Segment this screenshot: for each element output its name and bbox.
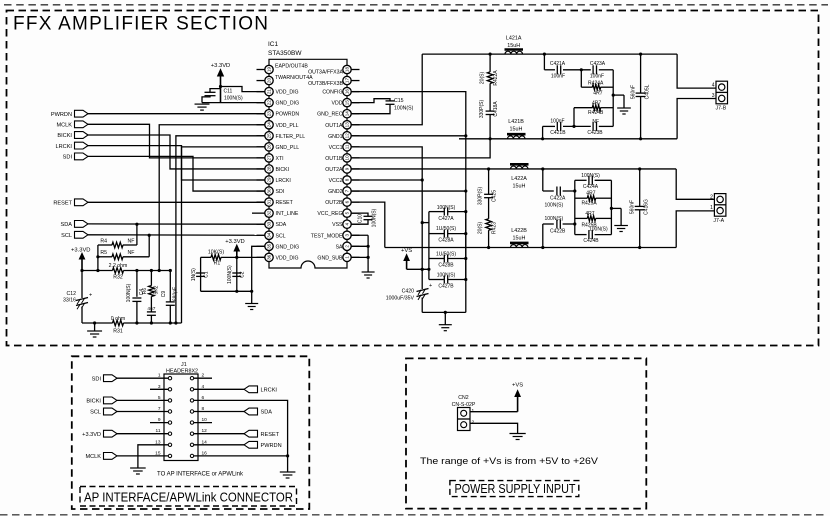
- svg-text:2: 2: [710, 195, 713, 201]
- svg-text:CONFIG: CONFIG: [322, 90, 342, 96]
- power +VS arrow: [401, 248, 412, 269]
- svg-text:+3.3VD: +3.3VD: [71, 248, 91, 254]
- svg-text:NF: NF: [128, 238, 135, 244]
- op-amp U1 reference IC1 STA350BW: [268, 41, 302, 57]
- resistor R32 2.2 ohm: [80, 263, 171, 280]
- wire +VS node: [407, 268, 431, 271]
- svg-text:RESET: RESET: [276, 200, 294, 206]
- wire SDI staircase: [88, 156, 265, 191]
- svg-text:31: 31: [267, 199, 272, 205]
- svg-text:22: 22: [267, 100, 272, 106]
- svg-text:C418A: C418A: [493, 101, 499, 117]
- capacitor C10 100N(S): [351, 208, 377, 227]
- wire to J7-B pin4: [677, 54, 716, 88]
- svg-text:J7-A: J7-A: [713, 218, 724, 224]
- svg-text:1: 1: [710, 205, 713, 211]
- svg-text:VDD_DIG: VDD_DIG: [276, 90, 299, 96]
- svg-text:IC1: IC1: [268, 41, 279, 48]
- capacitor C9 680pF: [161, 271, 179, 324]
- svg-text:C422B: C422B: [550, 229, 566, 235]
- svg-text:+: +: [429, 283, 432, 289]
- node RESET input tag: [53, 199, 264, 207]
- svg-text:+VS: +VS: [512, 383, 523, 389]
- node LRCKI input tag: [56, 142, 88, 150]
- svg-text:7: 7: [345, 189, 350, 192]
- svg-text:FFX AMPLIFIER SECTION: FFX AMPLIFIER SECTION: [13, 13, 268, 34]
- svg-text:6: 6: [202, 395, 205, 401]
- svg-text:C9: C9: [161, 291, 167, 298]
- svg-text:R31: R31: [113, 329, 123, 335]
- svg-text:RESET: RESET: [53, 201, 72, 207]
- svg-text:SDI: SDI: [63, 155, 73, 161]
- wire OUT1B jog: [351, 139, 490, 158]
- svg-text:C12: C12: [66, 291, 76, 297]
- power +3.3VD mid: [225, 239, 245, 259]
- svg-text:C428A: C428A: [438, 237, 454, 243]
- power +3.3VD top: [211, 63, 231, 103]
- capacitor C405L 560nF: [631, 54, 651, 139]
- svg-text:OUT2B: OUT2B: [325, 200, 343, 206]
- wire VCC bus to bypass ladder: [421, 221, 429, 224]
- svg-text:1: 1: [345, 256, 350, 259]
- svg-text:SDA: SDA: [60, 222, 72, 228]
- wire GND_DIG pin35 left: [252, 246, 265, 291]
- svg-text:19: 19: [267, 67, 272, 73]
- svg-text:BICKI: BICKI: [276, 167, 290, 173]
- svg-text:10: 10: [202, 417, 208, 423]
- svg-text:12: 12: [202, 428, 208, 434]
- svg-text:OUT2A: OUT2A: [325, 167, 343, 173]
- IC1 body: [269, 59, 347, 268]
- svg-text:9: 9: [158, 417, 161, 423]
- svg-text:L421A: L421A: [506, 36, 522, 42]
- svg-text:R423: R423: [492, 222, 498, 234]
- svg-text:0 ohm: 0 ohm: [111, 316, 125, 322]
- svg-text:R6: R6: [142, 288, 148, 295]
- svg-text:560nF: 560nF: [630, 200, 636, 214]
- svg-text:2: 2: [202, 373, 205, 379]
- wire TEST_MODE SA GND_SUB to ground: [351, 235, 370, 272]
- wire ground rail below C420: [422, 311, 466, 314]
- node BICKI input tag: [57, 132, 88, 140]
- svg-text:100nF: 100nF: [551, 74, 565, 80]
- svg-text:2: 2: [345, 245, 350, 248]
- svg-text:GND_REC: GND_REC: [317, 112, 343, 118]
- svg-text:C423B: C423B: [587, 130, 603, 136]
- svg-text:330P(S): 330P(S): [478, 186, 484, 205]
- svg-text:VCC_REG: VCC_REG: [317, 211, 342, 217]
- wire to J7-B pin3: [677, 99, 716, 139]
- svg-text:330P(S): 330P(S): [479, 99, 485, 118]
- svg-text:34: 34: [267, 232, 272, 238]
- svg-text:8: 8: [202, 406, 205, 412]
- svg-text:1000uF/35V: 1000uF/35V: [386, 296, 415, 302]
- svg-text:OUT3B/FFX3B: OUT3B/FFX3B: [308, 81, 343, 87]
- svg-text:13: 13: [345, 122, 350, 128]
- svg-text:560nF: 560nF: [631, 85, 637, 99]
- power label box: [450, 481, 579, 497]
- node +3.3VD tag AP box: [82, 430, 150, 438]
- stub INT_LINE pin 32: [252, 212, 257, 214]
- svg-text:SDA: SDA: [261, 410, 273, 416]
- node MCLK tag AP box: [85, 453, 150, 461]
- node SDA input tag: [60, 221, 264, 229]
- svg-text:32: 32: [267, 210, 272, 216]
- text TO AP INTERFACE or APWLink: [157, 471, 244, 478]
- wire CN2 pin2 to ground: [470, 423, 518, 433]
- IC1 right pin circles and numbers: [343, 65, 360, 261]
- power supply dashed border: [406, 358, 646, 508]
- svg-text:14: 14: [345, 111, 350, 117]
- wire GND_PLL down: [182, 147, 265, 323]
- ground AP right: [280, 472, 296, 478]
- inductor L422B 15uH: [510, 228, 529, 248]
- wire to J7-A pin1: [676, 211, 714, 248]
- svg-text:J1: J1: [181, 362, 187, 368]
- wire ground row pins35/36 cluster: [201, 290, 254, 293]
- svg-text:TO AP INTERFACE or APWLink: TO AP INTERFACE or APWLink: [157, 471, 244, 478]
- svg-text:4u7: 4u7: [147, 306, 155, 312]
- svg-text:L422B: L422B: [511, 228, 527, 234]
- svg-text:8: 8: [345, 178, 350, 181]
- svg-text:LRCKI: LRCKI: [261, 388, 278, 394]
- svg-text:14: 14: [202, 439, 208, 445]
- svg-text:VSS: VSS: [332, 222, 343, 228]
- svg-text:+3.3VD: +3.3VD: [82, 432, 101, 438]
- svg-text:16: 16: [202, 450, 208, 456]
- AP interface dashed border: [72, 356, 309, 509]
- svg-text:C422A: C422A: [550, 196, 566, 202]
- resistor R5 NF: [98, 250, 149, 260]
- svg-text:INT_LINE: INT_LINE: [276, 211, 299, 217]
- ground AP left: [130, 468, 146, 474]
- svg-text:100nF: 100nF: [550, 118, 564, 124]
- svg-text:C428B: C428B: [438, 262, 454, 268]
- wire OUT2A rail: [487, 167, 676, 170]
- svg-text:RESET: RESET: [261, 432, 280, 438]
- svg-text:4: 4: [712, 82, 715, 88]
- capacitor C15 100N(S): [351, 98, 413, 114]
- svg-text:23: 23: [267, 111, 272, 117]
- node LRCKI tag AP box: [212, 386, 277, 394]
- svg-text:10: 10: [345, 155, 350, 161]
- power +VS in supply box: [512, 383, 523, 412]
- resistor R423 20(S): [478, 219, 498, 248]
- svg-text:100N(S): 100N(S): [224, 95, 243, 101]
- resistor R6 and capacitor 4u7: [142, 271, 160, 324]
- text Vs range: [420, 456, 598, 466]
- connector CN2 CN-S-02P: [452, 395, 476, 431]
- svg-text:3: 3: [158, 384, 161, 390]
- svg-text:12: 12: [345, 133, 350, 139]
- svg-text:15uH: 15uH: [507, 43, 520, 49]
- svg-text:C424A: C424A: [583, 184, 599, 190]
- resistor R422A 20(S): [480, 54, 500, 86]
- svg-text:CN-S-02P: CN-S-02P: [452, 402, 476, 408]
- svg-text:GND_DIG: GND_DIG: [276, 244, 300, 250]
- svg-text:CN2: CN2: [458, 395, 468, 401]
- wire R4 to SDA: [135, 223, 138, 245]
- svg-text:C416G: C416G: [644, 199, 650, 215]
- svg-text:13: 13: [155, 439, 161, 445]
- IC1 left pin circles and numbers: [257, 65, 274, 261]
- svg-text:C2: C2: [240, 271, 246, 278]
- node SCL input tag: [61, 231, 265, 239]
- svg-text:GND1: GND1: [328, 134, 343, 140]
- svg-text:1U/50(S): 1U/50(S): [436, 226, 456, 232]
- inductor L421A 15uH: [505, 36, 524, 55]
- svg-text:VDD: VDD: [332, 101, 343, 107]
- svg-text:20(S): 20(S): [480, 72, 486, 85]
- svg-text:C15: C15: [394, 98, 404, 104]
- svg-text:R4: R4: [100, 238, 107, 244]
- title FFX AMPLIFIER SECTION: [13, 13, 268, 34]
- svg-text:C424B: C424B: [583, 238, 599, 244]
- svg-text:20(S): 20(S): [478, 222, 484, 235]
- amplifier section dashed border: [7, 11, 819, 346]
- svg-text:680pF: 680pF: [173, 287, 179, 301]
- wire OUT2A rail left: [351, 168, 488, 170]
- svg-text:15uH: 15uH: [513, 184, 526, 190]
- svg-text:SDI: SDI: [92, 376, 102, 382]
- wire to J7-A pin2: [676, 169, 714, 199]
- wire OUT2B rail: [385, 246, 676, 249]
- wire MCLK to XTI staircase: [88, 124, 265, 158]
- resistor R4 NF: [98, 238, 137, 248]
- svg-text:33: 33: [267, 221, 272, 227]
- svg-text:+3.3VD: +3.3VD: [225, 239, 245, 245]
- ground TEST_MODE: [362, 272, 375, 278]
- svg-text:24: 24: [267, 122, 272, 128]
- wire VDD_DIG pin36 left: [237, 256, 265, 258]
- svg-text:BICKI: BICKI: [57, 133, 72, 139]
- wire R4 R5 left vertical: [96, 245, 99, 272]
- svg-text:15uH: 15uH: [513, 236, 526, 242]
- svg-text:26: 26: [267, 144, 272, 150]
- svg-text:SCL: SCL: [276, 233, 286, 239]
- wire C11 to GND_DIG pin 22: [202, 102, 265, 104]
- svg-text:4: 4: [202, 384, 205, 390]
- capacitor C420 1000uF/35V: [386, 269, 432, 312]
- node PWRDN input tag: [51, 110, 265, 118]
- svg-text:100N(S): 100N(S): [437, 273, 456, 279]
- ground main rail: [439, 312, 452, 330]
- svg-text:R32: R32: [113, 274, 123, 280]
- svg-text:35: 35: [267, 243, 272, 249]
- svg-text:+VS: +VS: [401, 248, 412, 254]
- svg-text:10K(S): 10K(S): [208, 250, 224, 256]
- capacitors C427A C428A C428B C427B supply bypass: [429, 205, 468, 289]
- svg-text:NF: NF: [128, 250, 135, 256]
- wire CN2 pin1 to +VS: [470, 411, 518, 413]
- svg-text:3: 3: [345, 234, 350, 237]
- svg-text:1: 1: [472, 408, 475, 414]
- svg-text:VCC1: VCC1: [329, 145, 343, 151]
- svg-text:J7-B: J7-B: [716, 106, 727, 112]
- resistor R31 0 ohm: [111, 316, 125, 335]
- svg-text:15uH: 15uH: [510, 126, 523, 132]
- svg-text:STA350BW: STA350BW: [268, 50, 302, 57]
- svg-text:+3.3VD: +3.3VD: [211, 63, 231, 69]
- capacitor C4 100N(S): [126, 271, 145, 324]
- wire OUT2B jog: [351, 202, 385, 247]
- svg-text:C421B: C421B: [550, 130, 566, 136]
- svg-text:100N(S): 100N(S): [544, 202, 563, 208]
- svg-text:1: 1: [158, 373, 161, 379]
- svg-text:C423A: C423A: [590, 61, 606, 67]
- svg-text:C1: C1: [204, 271, 210, 278]
- connector J7-A: [710, 194, 726, 224]
- svg-text:2.2 ohm: 2.2 ohm: [109, 263, 128, 269]
- resistor-capacitor network R424A R424B C421A C423A C421B C423B: [543, 54, 614, 139]
- svg-text:4R7: 4R7: [593, 90, 602, 96]
- svg-text:R424B: R424B: [588, 110, 604, 116]
- svg-text:20: 20: [267, 78, 272, 84]
- svg-text:7: 7: [158, 406, 161, 412]
- wire R5 to SCL: [148, 234, 151, 257]
- svg-text:5K2: 5K2: [154, 285, 160, 294]
- power +3.3VD bottom left: [71, 248, 91, 271]
- svg-text:11: 11: [345, 144, 350, 149]
- svg-text:30: 30: [267, 188, 272, 194]
- svg-text:The range of +Vs is from +5V t: The range of +Vs is from +5V to +26V: [420, 456, 598, 466]
- node SDI tag AP box: [92, 375, 150, 383]
- svg-text:LRCKI: LRCKI: [276, 178, 291, 184]
- svg-text:1U/50(S): 1U/50(S): [436, 252, 456, 258]
- wire FILTER_PLL down: [176, 136, 265, 323]
- sheet bottom dashed line: [0, 514, 828, 516]
- svg-text:SCL: SCL: [61, 233, 72, 239]
- connector J7-B: [712, 81, 728, 112]
- svg-text:FILTER_PLL: FILTER_PLL: [276, 134, 306, 140]
- svg-text:XTI: XTI: [276, 156, 284, 162]
- connector J1 HEADER8X2 reference: [166, 362, 198, 375]
- svg-text:100N(S): 100N(S): [372, 208, 378, 227]
- svg-text:GND_SUB: GND_SUB: [317, 255, 343, 261]
- capacitor C418A 330P(S): [479, 83, 499, 138]
- svg-text:TEST_MODE: TEST_MODE: [311, 233, 343, 239]
- svg-text:PWRDN: PWRDN: [51, 112, 72, 118]
- wire OUT1B rail: [459, 137, 677, 140]
- svg-text:100N(S): 100N(S): [437, 205, 456, 211]
- svg-text:PWRDN: PWRDN: [261, 443, 282, 449]
- svg-text:28: 28: [267, 166, 272, 172]
- svg-text:R1: R1: [214, 261, 221, 267]
- ground feedback ch1: [612, 94, 631, 115]
- svg-text:AP INTERFACE/APWLink CONNECTOR: AP INTERFACE/APWLink CONNECTOR: [84, 490, 293, 505]
- capacitor C12 33/16: [63, 271, 92, 324]
- svg-text:POWER SUPPLY INPUT: POWER SUPPLY INPUT: [455, 481, 576, 496]
- svg-text:VDD_DIG: VDD_DIG: [276, 255, 299, 261]
- svg-text:OUT3A/FFX3A: OUT3A/FFX3A: [308, 70, 343, 76]
- inductor L421B 15uH: [507, 119, 526, 139]
- svg-text:SA: SA: [336, 244, 343, 250]
- capacitor C425 330P(S): [478, 169, 498, 219]
- capacitor C2 100N(S): [227, 257, 246, 291]
- svg-text:GND2: GND2: [328, 189, 343, 195]
- svg-text:18: 18: [345, 67, 350, 73]
- svg-text:R422A: R422A: [493, 70, 499, 86]
- ground near C11: [195, 104, 210, 110]
- svg-text:SDA: SDA: [276, 222, 287, 228]
- svg-text:OUT1B: OUT1B: [325, 156, 343, 162]
- svg-text:15: 15: [345, 100, 350, 106]
- wire LRCKI staircase: [88, 146, 265, 180]
- node RESET tag AP box: [212, 430, 280, 438]
- IC1 pin name labels: [275, 64, 344, 262]
- capacitor C1 1N(S): [191, 257, 210, 291]
- svg-text:L421B: L421B: [508, 119, 524, 125]
- svg-text:29: 29: [267, 177, 272, 183]
- wire BICKI staircase: [88, 135, 265, 169]
- resistor-capacitor network R425A R425B C422A C424A C422B C424B: [543, 169, 612, 244]
- svg-text:C427B: C427B: [438, 283, 454, 289]
- svg-text:5: 5: [158, 395, 161, 401]
- svg-text:VCC2: VCC2: [329, 178, 343, 184]
- wire +3.3VD to VDD_DIG pin 21: [219, 85, 265, 92]
- svg-text:MCLK: MCLK: [85, 454, 101, 460]
- svg-text:15: 15: [155, 450, 161, 456]
- node PWRDN tag AP box: [212, 441, 282, 449]
- svg-text:100N(S): 100N(S): [544, 216, 563, 222]
- svg-text:C421A: C421A: [550, 61, 566, 67]
- connector J1 header body and pins: [150, 373, 212, 461]
- svg-text:25: 25: [267, 133, 272, 139]
- wire pin6 pin16 to right ground: [212, 400, 289, 472]
- node BICKI tag AP box: [86, 397, 150, 405]
- wire VDD_PLL to +3.3V rail: [159, 125, 265, 271]
- capacitor C422B 100N(S): [543, 216, 577, 248]
- ground pins35/36 cluster: [245, 291, 258, 309]
- svg-text:21: 21: [267, 89, 272, 95]
- svg-text:+: +: [89, 293, 92, 299]
- svg-text:5: 5: [345, 211, 350, 214]
- svg-text:100N(S): 100N(S): [126, 283, 132, 302]
- svg-text:LRCKI: LRCKI: [56, 144, 73, 150]
- wire pin13 to left ground: [138, 445, 150, 468]
- svg-text:100N(S): 100N(S): [394, 106, 414, 112]
- svg-text:C10: C10: [358, 214, 364, 223]
- svg-text:GND_DIG: GND_DIG: [276, 101, 300, 107]
- svg-text:C425: C425: [492, 190, 498, 202]
- inductor L422A 15uH: [510, 164, 529, 189]
- svg-text:11: 11: [156, 428, 161, 434]
- node SDA tag AP box: [212, 408, 272, 416]
- capacitor C416G 560nF: [630, 169, 650, 248]
- wire VCC bus: [351, 147, 424, 271]
- svg-text:C427A: C427A: [438, 216, 454, 222]
- node SCL tag AP box: [90, 408, 150, 416]
- svg-text:L422A: L422A: [511, 176, 527, 182]
- AP label box: [80, 487, 297, 507]
- svg-text:SDI: SDI: [276, 189, 285, 195]
- svg-text:3: 3: [712, 93, 715, 99]
- svg-text:2: 2: [472, 420, 475, 426]
- svg-text:SCL: SCL: [90, 410, 101, 416]
- capacitor C11 100N(S): [202, 89, 243, 103]
- svg-text:MCLK: MCLK: [56, 123, 72, 129]
- svg-text:R425A: R425A: [581, 201, 597, 207]
- svg-text:100nF: 100nF: [590, 74, 604, 80]
- ground feedback ch2: [610, 207, 628, 232]
- svg-text:27: 27: [267, 155, 272, 161]
- svg-text:100N(S): 100N(S): [581, 173, 600, 179]
- svg-text:OUT1A: OUT1A: [325, 123, 343, 129]
- wire OUT1A rail: [422, 53, 677, 56]
- svg-text:VDD_PLL: VDD_PLL: [276, 123, 299, 129]
- wire CONFIG GND bus: [351, 92, 467, 313]
- svg-text:BICKI: BICKI: [86, 399, 101, 405]
